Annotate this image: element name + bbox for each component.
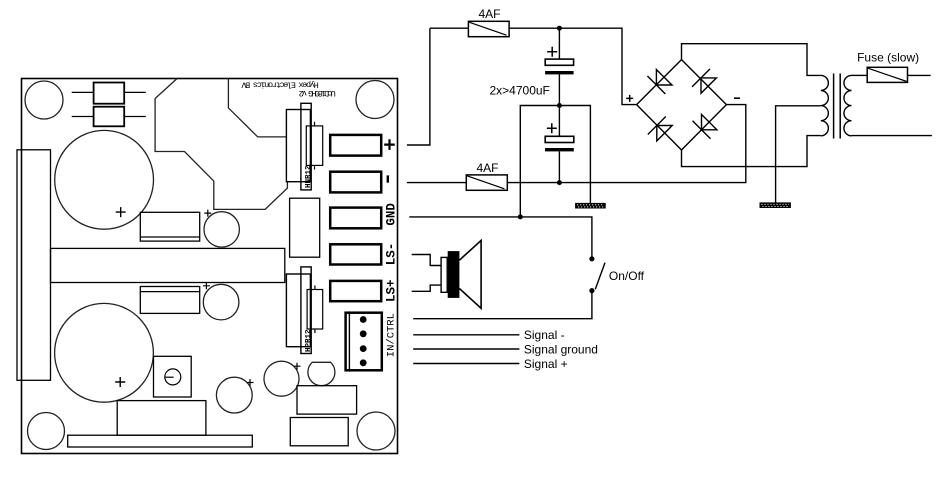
wire signal ground xyxy=(413,348,519,350)
capacitor small C-C xyxy=(204,210,239,248)
bottom rect center xyxy=(117,401,206,436)
wire transformer bottom to mains xyxy=(852,135,932,137)
transformer T1 secondary winding xyxy=(821,75,829,135)
junction C2 bottom / minus rail xyxy=(557,180,562,185)
connector pad + xyxy=(330,135,381,156)
mounting hole top-left xyxy=(25,81,63,119)
wire bridge top to transformer xyxy=(682,44,821,76)
wire + pad to riser xyxy=(407,28,430,145)
svg-text:LS-: LS- xyxy=(385,243,399,266)
wire transformer to fuse F3 xyxy=(852,74,868,76)
wire - pad to fuse F2 xyxy=(407,182,466,184)
connector pad - xyxy=(330,172,381,193)
copper zone outline left polyline xyxy=(155,79,287,210)
heatsink tab left xyxy=(17,150,51,380)
wire fuse F2 to bridge minus riser xyxy=(507,105,746,183)
wire signal minus xyxy=(413,334,519,336)
svg-text:Signal +: Signal + xyxy=(524,357,568,371)
electrolytic capacitor big C-B xyxy=(55,303,154,402)
wire GND pad to switch riser xyxy=(409,217,592,257)
diode D3 (bottom-left) xyxy=(648,117,672,141)
copper zone outline right polyline xyxy=(228,79,287,137)
speaker LS1 xyxy=(441,240,481,308)
junction top rail / C1 xyxy=(557,26,562,31)
regulator module HNR12 xyxy=(286,103,322,190)
capacitor small C-E xyxy=(216,377,253,413)
wire LS- pad to speaker xyxy=(412,255,441,266)
wire cap midpoint to GND rail xyxy=(520,106,559,217)
svg-text:LS+: LS+ xyxy=(385,279,399,302)
svg-text:IN/CTRL: IN/CTRL xyxy=(386,313,398,357)
relay rect RL1 xyxy=(140,212,199,241)
svg-text:2x>4700uF: 2x>4700uF xyxy=(490,84,550,98)
mounting hole bottom-right xyxy=(357,412,395,450)
diode D1 (top-left) xyxy=(647,70,672,94)
regulator module HPR12 xyxy=(286,267,322,354)
switch S1 On/Off xyxy=(589,256,605,293)
pin label - xyxy=(387,175,389,182)
svg-text:On/Off: On/Off xyxy=(609,269,645,283)
capacitor C2 polarized xyxy=(545,123,574,151)
wire transformer center tap to earth xyxy=(776,106,821,203)
transformer T1 primary winding xyxy=(844,75,852,135)
PCB board outline xyxy=(22,79,398,454)
wire signal plus xyxy=(413,363,519,365)
fuse F2 4AF xyxy=(466,175,507,190)
relay rect RL2 xyxy=(140,287,199,314)
wire LS+ pad to speaker xyxy=(412,285,441,291)
label - (bridge) xyxy=(734,97,740,99)
svg-text:Signal -: Signal - xyxy=(524,328,565,342)
bottom-right rect lower xyxy=(290,418,348,446)
svg-text:Signal ground: Signal ground xyxy=(524,342,598,356)
bridge rectifier B1 diamond xyxy=(637,60,727,150)
electrolytic capacitor big C-A xyxy=(55,130,154,229)
earth ground bar 1 xyxy=(575,203,606,209)
pin label + xyxy=(384,139,395,150)
label + (bridge) xyxy=(626,95,633,102)
connector pad LS- xyxy=(330,244,381,264)
svg-text:Fuse (slow): Fuse (slow) xyxy=(857,50,919,64)
capacitor C1 polarized xyxy=(545,47,574,75)
wire capacitor C2 bottom lead xyxy=(558,151,560,182)
wire cap midpoint to earth ground xyxy=(559,106,590,204)
earth ground bar 2 xyxy=(760,202,791,208)
wire fuse F3 to mains xyxy=(908,74,931,76)
bottom-right rect upper xyxy=(297,386,357,414)
svg-text:4AF: 4AF xyxy=(477,161,499,175)
capacitor D-shape C-G xyxy=(308,362,335,385)
bottom bar wide xyxy=(68,435,253,447)
svg-text:GND: GND xyxy=(385,203,399,226)
connector IN/CTRL with 4 pins xyxy=(346,311,382,371)
svg-text:4AF: 4AF xyxy=(479,7,501,21)
wire bridge bottom to transformer xyxy=(682,136,821,167)
capacitor small C-F xyxy=(264,361,301,396)
fuse F1 4AF xyxy=(468,21,509,36)
mounting hole top-right xyxy=(356,81,394,119)
resistor block R-top1 with leads xyxy=(72,83,146,104)
connector pad GND xyxy=(330,208,381,229)
wire switch bottom to IN/CTRL pin 1 xyxy=(413,293,592,319)
wire capacitor C2 top lead xyxy=(558,106,560,137)
resistor block R-top2 with leads xyxy=(72,107,146,127)
wire capacitor C1 bottom lead xyxy=(558,74,560,105)
wire capacitor C1 top lead xyxy=(558,28,560,59)
wire fuse F1 to bridge riser xyxy=(509,28,636,104)
diode D2 (top-right) xyxy=(692,69,716,93)
svg-text:Hypex Electronics BV: Hypex Electronics BV xyxy=(240,80,318,90)
transformer T1 core xyxy=(834,74,841,139)
junction GND rail xyxy=(518,214,523,219)
wire top rail to fuse F1 xyxy=(430,27,469,29)
svg-text:UcD180HG v2: UcD180HG v2 xyxy=(299,88,336,98)
svg-text:HNR12: HNR12 xyxy=(305,165,313,188)
mid-right component rect xyxy=(290,198,320,257)
svg-text:HPR12: HPR12 xyxy=(305,329,313,352)
connector pad LS+ xyxy=(330,281,381,301)
fuse F3 (mains, slow) xyxy=(867,67,907,82)
diode D4 (bottom-right) xyxy=(693,114,717,138)
mounting hole bottom-left xyxy=(28,413,65,450)
inductor bus bar xyxy=(51,248,285,282)
trimpot RV1 xyxy=(154,356,192,397)
junction cap midpoint xyxy=(557,103,562,108)
capacitor small C-D xyxy=(203,282,239,320)
